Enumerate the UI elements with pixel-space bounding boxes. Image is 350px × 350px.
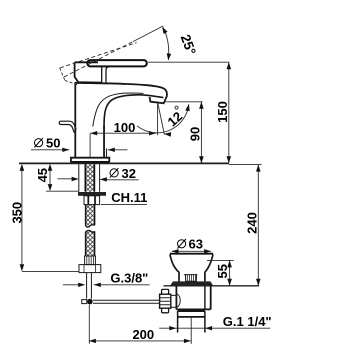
drain knurled nut body <box>160 294 171 308</box>
arrowhead arc12 end <box>185 104 190 111</box>
leader CH11 <box>101 203 147 205</box>
extension line outlet to 90 dim <box>166 101 203 103</box>
arrowhead 90 bottom <box>199 156 204 163</box>
dim 90 vertical <box>200 102 202 164</box>
diameter 50 extension tick <box>106 148 108 157</box>
dim 240 vertical <box>257 165 259 286</box>
arrowhead 100 left <box>90 131 97 135</box>
dim 100 line <box>90 132 156 134</box>
faucet handle cap <box>75 62 102 82</box>
drain plug <box>184 275 198 282</box>
drain ball housing arc <box>176 294 180 308</box>
dashed raised lever line 2 <box>60 43 137 68</box>
svg-text:50: 50 <box>46 135 60 150</box>
ball lug <box>82 300 87 304</box>
arrowhead d50 right <box>108 148 115 152</box>
svg-text:CH.11: CH.11 <box>111 190 147 205</box>
dashed raised lever line 1 <box>64 42 133 77</box>
drain centerline <box>190 317 192 344</box>
dim 45 vertical <box>49 165 51 190</box>
faucet drain centerline lower <box>88 305 90 344</box>
underline G3/8 <box>109 284 150 286</box>
faucet base flange <box>71 158 109 162</box>
shank outer lines <box>79 164 100 192</box>
drain nut neck <box>171 295 176 307</box>
arc 25 degrees <box>163 28 169 60</box>
pull rod knob <box>59 121 76 133</box>
ball joint <box>87 299 93 305</box>
hose lower segment <box>86 231 95 256</box>
faucet lever bar <box>87 60 147 66</box>
dim diameter 32 arrows <box>58 178 78 180</box>
drain body <box>176 286 210 311</box>
dim diameter 50 right line <box>108 149 128 151</box>
arrowhead arc25 bottom <box>167 53 172 60</box>
dim 200 line <box>89 340 191 342</box>
drain knurled nut bottom cap <box>162 308 169 313</box>
popup rod horizontal <box>93 300 159 303</box>
spout underside outer curve <box>104 95 163 128</box>
faucet base flange bottom <box>71 161 110 163</box>
shank hose crosshatch <box>86 164 93 192</box>
svg-text:200: 200 <box>132 327 154 342</box>
dim 350 vertical <box>21 165 23 270</box>
spout underside inner curve <box>93 93 144 127</box>
svg-text:150: 150 <box>215 101 230 123</box>
drain tailpiece <box>178 316 205 318</box>
radial vertical 12deg <box>157 103 159 135</box>
svg-text:32: 32 <box>122 166 136 181</box>
arc 12 degrees <box>137 104 189 133</box>
faucet body right edge <box>103 126 105 158</box>
arrowhead 90 top <box>199 102 204 109</box>
drain bell sides <box>170 255 213 282</box>
supply pipe <box>87 273 92 299</box>
washer under counter <box>78 192 106 196</box>
drain plane line <box>164 285 260 287</box>
label diameter 50 symbol <box>34 138 43 148</box>
hose hex nut <box>79 265 101 273</box>
label diameter 32 symbol <box>110 168 119 178</box>
svg-text:350: 350 <box>10 202 25 224</box>
nut CH11 <box>84 196 100 205</box>
underline 32 <box>108 179 139 181</box>
drain washer <box>170 281 213 285</box>
faucet body top and spout top outline <box>75 83 167 104</box>
svg-text:100: 100 <box>114 120 136 135</box>
svg-text:45: 45 <box>35 168 50 182</box>
dim 55 vertical <box>229 260 231 285</box>
svg-text:240: 240 <box>245 212 260 234</box>
svg-text:63: 63 <box>189 236 203 251</box>
svg-text:90: 90 <box>188 127 203 141</box>
faucet body left edge <box>74 83 76 158</box>
faucet centerline <box>89 134 91 157</box>
dim 55 extension top <box>207 259 234 261</box>
mounting plane line <box>19 162 229 164</box>
arrowhead 150 top <box>227 62 232 69</box>
radial tilted 12deg <box>158 103 165 135</box>
drain knurled nut top cap <box>162 289 169 294</box>
label diameter 63 symbol <box>177 239 186 249</box>
hose upper segment <box>86 205 95 226</box>
dashed raised cap bottom <box>65 80 77 84</box>
dim G1 1/4 arrows <box>159 327 270 329</box>
extension line lever top to 150 dim <box>148 61 229 63</box>
dim diameter 50 left line <box>31 149 69 151</box>
shank hose thick edges <box>85 164 94 192</box>
arrowhead arc25 top <box>162 27 168 34</box>
drain body inner line <box>204 286 206 310</box>
dim G3/8 arrows <box>63 284 84 286</box>
arrowhead arc12 left <box>164 132 171 137</box>
drain bell top <box>170 253 213 255</box>
hose ferrule <box>85 256 96 265</box>
extension line 350 bottom <box>22 271 79 273</box>
dim 150 vertical <box>228 62 230 163</box>
svg-text:55: 55 <box>215 264 230 278</box>
extension line 240 top <box>229 164 262 166</box>
dashed raised cap left edge <box>60 68 65 81</box>
arrowhead 150 bottom <box>227 156 232 163</box>
arrowhead 100 right <box>149 131 156 135</box>
faucet lever stem <box>102 67 110 83</box>
arrowhead d50 left <box>62 148 69 152</box>
dim diameter 63 line <box>172 250 212 252</box>
svg-text:G.3/8": G.3/8" <box>110 271 148 286</box>
extension line 45 bottom <box>46 190 79 192</box>
svg-text:G.1 1/4": G.1 1/4" <box>223 314 272 329</box>
